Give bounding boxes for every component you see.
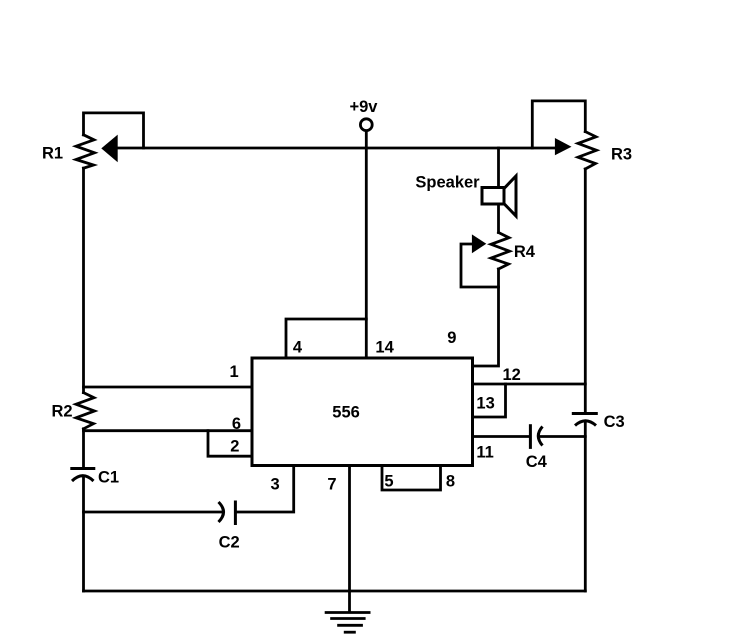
- wire pin 5/8 stub: [382, 466, 441, 491]
- wire pin 2 stub: [208, 431, 252, 457]
- wire pin 11 lead: [473, 435, 529, 438]
- svg-text:R1: R1: [42, 145, 63, 163]
- svg-text:9: 9: [447, 329, 456, 347]
- wire C2 left lead: [84, 511, 223, 514]
- wire pin 4 loop: [286, 319, 366, 358]
- wire speaker branch upper: [497, 148, 500, 188]
- wire left rail lower: [82, 478, 85, 592]
- wire C2 to pin 3: [235, 466, 293, 513]
- wire +9v to pin 14: [365, 131, 368, 358]
- wire C4 right lead: [540, 435, 586, 438]
- wire R4 wiper loop: [461, 244, 499, 287]
- chip U1 556: [252, 358, 473, 466]
- svg-text:12: 12: [503, 366, 521, 384]
- wire right rail lower: [584, 422, 587, 591]
- svg-text:C4: C4: [526, 453, 548, 471]
- svg-text:R2: R2: [52, 403, 73, 421]
- svg-text:C2: C2: [219, 534, 240, 552]
- svg-text:556: 556: [332, 404, 360, 422]
- capacitor C2: [219, 501, 236, 526]
- svg-text:R4: R4: [514, 243, 536, 261]
- resistor R3: [555, 132, 597, 169]
- svg-text:+9v: +9v: [350, 98, 379, 116]
- svg-text:6: 6: [232, 415, 241, 433]
- svg-text:7: 7: [327, 476, 336, 494]
- resistor R4: [472, 233, 510, 270]
- +9v terminal: [360, 119, 372, 131]
- wire R4 to pin 9: [473, 269, 499, 366]
- svg-text:5: 5: [384, 473, 393, 491]
- wire pin 6: [84, 429, 253, 432]
- svg-text:1: 1: [230, 363, 239, 381]
- speaker: [482, 176, 516, 216]
- svg-text:3: 3: [271, 476, 280, 494]
- wire top main horizontal: [118, 147, 555, 150]
- wire pin 13 stub: [473, 384, 506, 417]
- wire bottom rail: [84, 590, 586, 593]
- wire left rail to C1: [82, 429, 85, 467]
- svg-text:R3: R3: [611, 146, 632, 164]
- svg-text:2: 2: [230, 438, 239, 456]
- svg-text:C3: C3: [604, 413, 625, 431]
- wire pin 7 to ground: [348, 466, 351, 613]
- wire R1 top loop: [84, 113, 144, 148]
- wire speaker to R4: [497, 204, 500, 233]
- wire pin 12: [473, 383, 586, 386]
- capacitor C4: [530, 424, 542, 449]
- svg-text:14: 14: [375, 338, 394, 356]
- resistor R1: [76, 135, 118, 169]
- wire left rail upper (R1 bottom to pin1 node): [82, 168, 85, 392]
- svg-text:13: 13: [476, 395, 494, 413]
- svg-text:4: 4: [293, 338, 303, 356]
- wire R3 top loop: [532, 101, 585, 148]
- ground: [325, 613, 371, 633]
- wire pin 1: [84, 386, 253, 389]
- svg-text:11: 11: [476, 444, 493, 462]
- resistor R2: [76, 393, 95, 429]
- svg-text:Speaker: Speaker: [415, 174, 480, 192]
- svg-text:8: 8: [446, 473, 455, 491]
- capacitor C1: [70, 469, 95, 482]
- wire right rail R3 to C3: [584, 169, 587, 414]
- svg-text:C1: C1: [98, 469, 119, 487]
- capacitor C3: [572, 414, 598, 426]
